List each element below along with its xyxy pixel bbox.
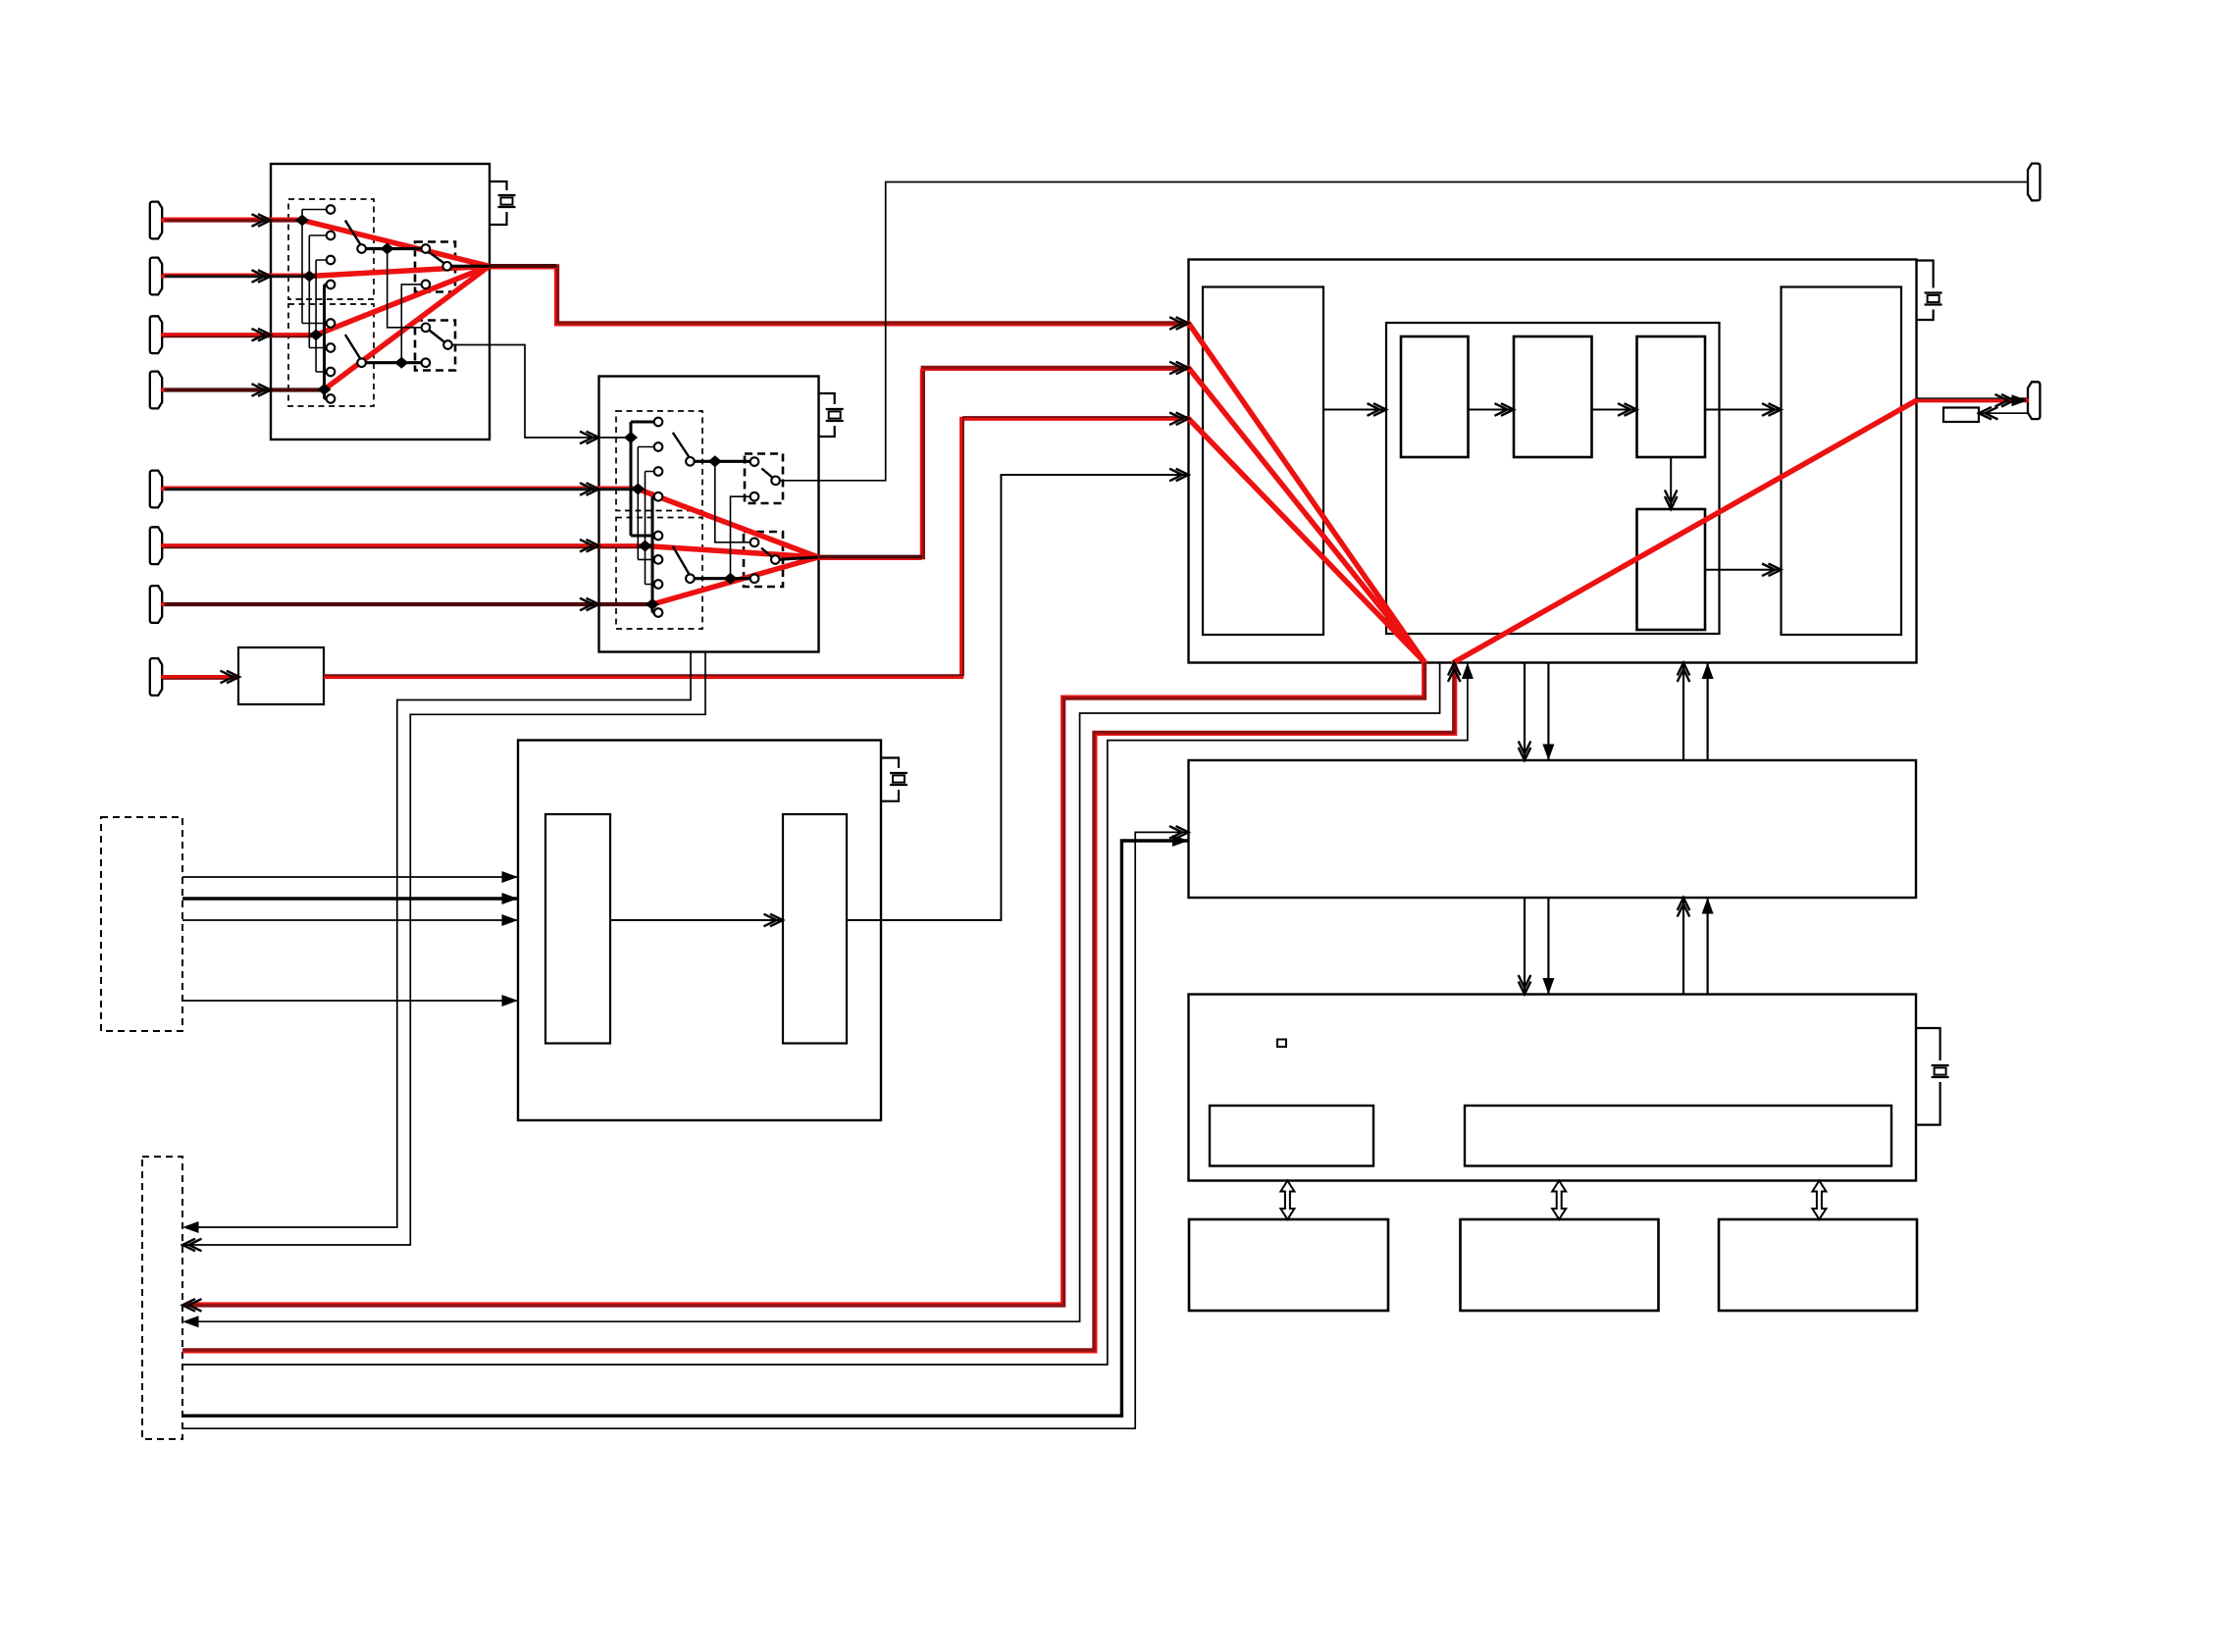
relay S2d (bold dashed)	[744, 532, 783, 587]
arrow bus U3-U4 solid	[1542, 745, 1554, 761]
relay bank S1a (dashed)	[288, 199, 374, 299]
wire U1 switch out to U2	[448, 345, 632, 439]
arrow U3 chain 2	[1495, 403, 1515, 416]
marker chip inside U5	[1277, 1040, 1286, 1048]
rear panel block (dashed)	[142, 1157, 182, 1439]
arrow CN5 into U2	[580, 483, 599, 495]
switch unit U2	[599, 377, 819, 652]
junction U2 upper chain	[708, 455, 722, 467]
signal path diagonal U1 in1	[302, 221, 490, 267]
arrow CN3 into U1	[252, 329, 272, 341]
signal path diagonal U2 in2	[646, 546, 819, 558]
connector CN9	[2028, 164, 2040, 201]
front panel block (dashed)	[101, 817, 182, 1031]
wire front panel to U6 line 1	[182, 876, 518, 878]
net MON-B: U3 to rear panel	[185, 663, 1440, 1322]
wire CN3 to U1	[162, 333, 316, 336]
signal path diagonal U1 in2	[309, 266, 489, 276]
wire S1 upper chain	[362, 247, 426, 250]
contact S2c blade	[771, 477, 780, 486]
net PLAY-A: rear panel to U3	[182, 663, 1454, 1351]
U3 output block	[1782, 287, 1902, 636]
signal path diagonal U2 in3	[652, 557, 818, 604]
junction U1 in4	[318, 384, 332, 395]
pin dot CN4	[161, 387, 165, 391]
contact U1 r7	[327, 368, 336, 377]
connector CN10	[2028, 382, 2040, 419]
contact U2 r5	[654, 532, 663, 541]
arrow CN1 into U1	[252, 214, 272, 227]
connector CN7	[150, 586, 162, 623]
wire S2 select 1 (thick)	[631, 422, 658, 536]
pin dot CN6	[161, 543, 165, 547]
arrow bus U5-U4 chev	[1678, 898, 1690, 917]
pin dot CN1	[161, 218, 165, 222]
wire S1c output	[447, 265, 490, 268]
arrow U3 chain 1	[1368, 403, 1387, 416]
pin dot CN2	[161, 274, 165, 278]
wire S2 select 4 (thick)	[652, 496, 658, 612]
net REC2: U2 output to U3	[819, 368, 1189, 557]
switch blade S2d	[761, 548, 774, 559]
contact S1c blade	[442, 262, 451, 271]
crystal X2	[826, 409, 844, 421]
U5 register block F	[1465, 1106, 1891, 1166]
contact S1c top	[422, 244, 431, 253]
arrow U6 out into U3	[1169, 469, 1189, 482]
contact S1d top	[422, 324, 431, 333]
bus U3-U4 down 1	[1524, 663, 1526, 761]
bus arrow U5-G	[1280, 1181, 1294, 1220]
crystal X4 bracket	[881, 758, 899, 801]
U6 block B	[783, 814, 847, 1044]
wire U6 output to U3	[847, 475, 1189, 920]
wire U3 chain 1	[1323, 409, 1386, 411]
wire CN8 to U7	[162, 675, 239, 679]
arrow U3 chain 4	[1762, 403, 1782, 416]
wire CN1 to U1	[162, 218, 302, 222]
switch blade S1 upper	[345, 221, 362, 247]
arrow REC2 into U3	[1169, 362, 1189, 375]
wire S2 lower chain	[690, 577, 754, 580]
switch blade S1 lower	[345, 335, 362, 361]
wire U2 aux out 1 to rear panel	[185, 652, 691, 1228]
contact U2 r7	[654, 580, 663, 589]
U5 register block E	[1210, 1106, 1373, 1166]
arrow bus U4-U3 chev	[1678, 663, 1690, 683]
wire U3 stage D out	[1705, 569, 1782, 571]
wire S2 select 2	[638, 447, 658, 560]
contact U1 r2	[327, 232, 336, 240]
relay bank S1b (dashed)	[288, 304, 374, 406]
U3 input block	[1203, 287, 1323, 636]
memory G	[1189, 1219, 1388, 1311]
wire CN5 to U2	[162, 488, 638, 491]
contact U2 r6	[654, 555, 663, 564]
connector CN3	[150, 316, 162, 353]
arrow bus U5-U4 solid	[1702, 898, 1714, 914]
contact U1 r6	[327, 343, 336, 352]
contact U1 r4	[327, 281, 336, 289]
arrow bus U4-U5 chev	[1519, 975, 1531, 995]
relay S1d (bold dashed)	[415, 321, 455, 371]
net CTRL-A: rear panel to U4 (thick)	[182, 841, 1189, 1416]
bus U5-U4 up 2	[1706, 898, 1708, 995]
net OUT: U3 to CN10	[1916, 398, 2028, 402]
wire S1c lower contact lead	[401, 284, 426, 363]
bus arrow U5-H	[1552, 1181, 1566, 1220]
net PLAY-B: rear panel to U3	[182, 663, 1468, 1366]
signal path diagonal U1 in3	[316, 266, 489, 335]
U3 stage A	[1401, 336, 1469, 457]
wire front panel to U6 line 3	[182, 919, 518, 921]
wire U2 aux out 2 to rear panel	[185, 652, 705, 1246]
net CTRL-B: rear panel to U4	[182, 832, 1189, 1428]
arrow U3 chain 3	[1618, 403, 1637, 416]
pin dot CN7	[161, 602, 165, 606]
contact U1 r3	[327, 256, 336, 265]
U3 stage D	[1637, 509, 1706, 630]
pin dot CN8	[161, 675, 165, 679]
switch unit U1	[271, 164, 490, 439]
pin dot CN10	[2025, 398, 2029, 402]
switch blade S2 lower	[673, 546, 691, 576]
wire U3 chain 4	[1705, 409, 1782, 411]
contact U2 r2	[654, 442, 663, 451]
contact U1 r8	[327, 394, 336, 403]
bus U4-U3 up 1	[1682, 663, 1684, 761]
junction U1 in2	[302, 271, 316, 283]
arrow PLAY-B into U3	[1462, 663, 1474, 680]
contact S2c bottom	[750, 492, 759, 501]
arrow bus U3-U4 chev	[1519, 742, 1531, 761]
bus U4-U5 down 1	[1524, 898, 1526, 995]
connector CN5	[150, 471, 162, 508]
arrow bus U4-U5 solid	[1542, 978, 1554, 995]
bus U5-U4 up 1	[1682, 898, 1684, 995]
signal path diagonal U2 in1	[638, 490, 818, 558]
arrow U1 out into U2	[580, 432, 599, 444]
signal path diagonal U3 c	[1189, 419, 1424, 662]
signal path diagonal U1 in4	[325, 266, 490, 389]
crystal X3 bracket	[1916, 261, 1933, 321]
net TUN: U7 output to U3	[324, 419, 1189, 677]
arrow into rear panel 1	[182, 1221, 199, 1233]
arrow OUT chev	[1995, 394, 2015, 407]
arrow U3 stage C-D	[1665, 490, 1678, 510]
arrow PLAY-A into U3	[1448, 663, 1461, 683]
wire CN4 to U1	[162, 387, 324, 391]
junction U2 lower chain	[724, 573, 738, 585]
contact U2 r4	[654, 492, 663, 501]
arrow FP line2 into U6	[502, 893, 519, 904]
wire S1 select 1	[302, 210, 331, 324]
buffer amp U7	[238, 647, 324, 704]
connector CN6	[150, 527, 162, 564]
signal path diagonal U3 a	[1189, 324, 1424, 663]
junction U1 in3	[309, 329, 323, 340]
junction U1 lower chain	[394, 357, 408, 369]
signal path diagonal U3 b	[1189, 368, 1424, 662]
arrow CTRL-B into U4	[1169, 826, 1189, 839]
wire S1 upper tap	[388, 249, 426, 328]
pin dot CN3	[161, 333, 165, 336]
contact U1 r1	[327, 205, 336, 214]
contact S1d blade	[443, 340, 452, 349]
bus U4-U3 up 2	[1706, 663, 1708, 761]
DSP U6	[518, 741, 881, 1121]
controller U5	[1189, 995, 1917, 1181]
wire U6 internal chain	[610, 919, 783, 921]
wire S1 lower chain	[362, 361, 426, 364]
contact U1 blade upper	[357, 244, 366, 253]
wire U3 chain 3	[1592, 409, 1637, 411]
net REC1: U1 output to U3	[490, 267, 1189, 324]
relay S1c (bold dashed)	[415, 242, 455, 292]
wire S1 select 4 (thick)	[325, 284, 332, 399]
arrow U3 stage D out	[1762, 564, 1782, 577]
wire S1 select 2	[309, 235, 331, 348]
wire U3 stage C to D	[1670, 457, 1672, 509]
junction U2 in0	[624, 432, 638, 443]
contact U2 blade lower	[686, 574, 695, 583]
signal path diagonal U3 return	[1454, 400, 1916, 662]
arrow OUT tip	[2012, 394, 2029, 406]
arrow FP line3 into U6	[502, 914, 519, 926]
wire front panel to U6 line 4	[182, 1000, 518, 1002]
arrow FP line4 into U6	[502, 995, 519, 1007]
processor U3	[1189, 260, 1917, 663]
crystal X5 bracket	[1916, 1028, 1940, 1125]
contact U2 r1	[654, 418, 663, 427]
arrow CN4 into U1	[252, 384, 272, 396]
crystal X1 bracket	[490, 181, 507, 225]
arrow CN7 into U2	[580, 598, 599, 611]
junction U1 upper chain	[381, 243, 394, 255]
switch blade S2 upper	[673, 433, 691, 459]
wire CN2 to U1	[162, 275, 309, 279]
contact S2d top	[750, 539, 759, 547]
contact S1c bottom	[422, 281, 431, 289]
arrow CN6 into U2	[580, 540, 599, 552]
relay bank S2a (dashed)	[616, 411, 702, 511]
U3 core block	[1386, 323, 1720, 634]
contact U1 blade lower	[357, 358, 366, 367]
junction U2 in3	[646, 598, 659, 610]
wire S2c lower contact lead	[731, 496, 755, 579]
arrow CTRL-A into U4	[1172, 835, 1189, 847]
wire S2d output	[775, 557, 818, 560]
arrow CN2 into U1	[252, 270, 272, 283]
arrow REC1 into U3	[1169, 317, 1189, 330]
wire CN6 to U2	[162, 543, 645, 547]
arrow MON-B into rear panel	[182, 1316, 199, 1327]
arrow U8 feedback	[1979, 407, 1998, 420]
wire S2 select 3	[646, 472, 659, 585]
U3 stage B	[1514, 336, 1592, 457]
bus arrow U5-I	[1812, 1181, 1826, 1220]
wire S1 select 3	[316, 260, 331, 372]
switch blade S2c	[761, 469, 774, 480]
wire front panel to U6 line 2 (thick)	[182, 897, 518, 901]
pin dot CN5	[161, 487, 165, 490]
crystal X4	[890, 773, 907, 785]
contact S2c top	[750, 457, 759, 466]
bus U3-U4 down 2	[1547, 663, 1549, 761]
level detector U8	[1943, 408, 1979, 423]
crystal X3	[1925, 293, 1942, 305]
contact S1d bottom	[422, 358, 431, 367]
arrow CN8 into U7	[221, 671, 240, 684]
junction U2 in1	[631, 484, 645, 495]
net MON-A: U3 to rear panel	[185, 662, 1424, 1305]
switch blade S1d	[430, 331, 446, 343]
junction U1 in1	[295, 215, 309, 227]
crystal X5	[1932, 1065, 1949, 1077]
connector CN2	[150, 258, 162, 295]
arrow U6 chain	[764, 914, 784, 927]
contact U1 r5	[327, 319, 336, 328]
relay S2c (bold dashed)	[745, 454, 783, 504]
wire S2 upper tap	[715, 461, 754, 542]
U3 stage C	[1637, 336, 1706, 457]
memory H	[1461, 1219, 1659, 1311]
arrow FP line1 into U6	[502, 871, 519, 883]
contact U2 r8	[654, 608, 663, 617]
arrow MON-A into rear panel	[182, 1299, 202, 1312]
contact S2d blade	[771, 555, 780, 564]
connector CN8	[150, 658, 162, 696]
crystal X1	[498, 195, 516, 207]
arrow into rear panel 2	[182, 1239, 202, 1252]
arrow bus U4-U3 solid	[1702, 663, 1714, 680]
connector CN4	[150, 372, 162, 409]
switch blade S1c	[428, 251, 445, 264]
wire U8 to CN10	[1982, 412, 2028, 414]
relay bank S2b (dashed)	[616, 518, 702, 630]
contact U2 blade upper	[686, 457, 695, 466]
contact U2 r3	[654, 467, 663, 476]
memory I	[1719, 1219, 1917, 1311]
contact S2d bottom	[750, 574, 759, 583]
wire S2 upper chain	[690, 460, 754, 463]
wire U3 chain 2	[1469, 409, 1515, 411]
bus U4-U5 down 2	[1547, 898, 1549, 995]
junction U2 in2	[639, 541, 652, 552]
arrow TUN into U3	[1169, 413, 1189, 426]
bus interface U4	[1189, 760, 1917, 898]
U6 block A	[545, 814, 610, 1044]
connector CN1	[150, 202, 162, 239]
wire U2 relay out to CN9	[776, 182, 2028, 481]
wire CN7 to U2	[162, 602, 652, 606]
crystal X2 bracket	[819, 393, 835, 437]
